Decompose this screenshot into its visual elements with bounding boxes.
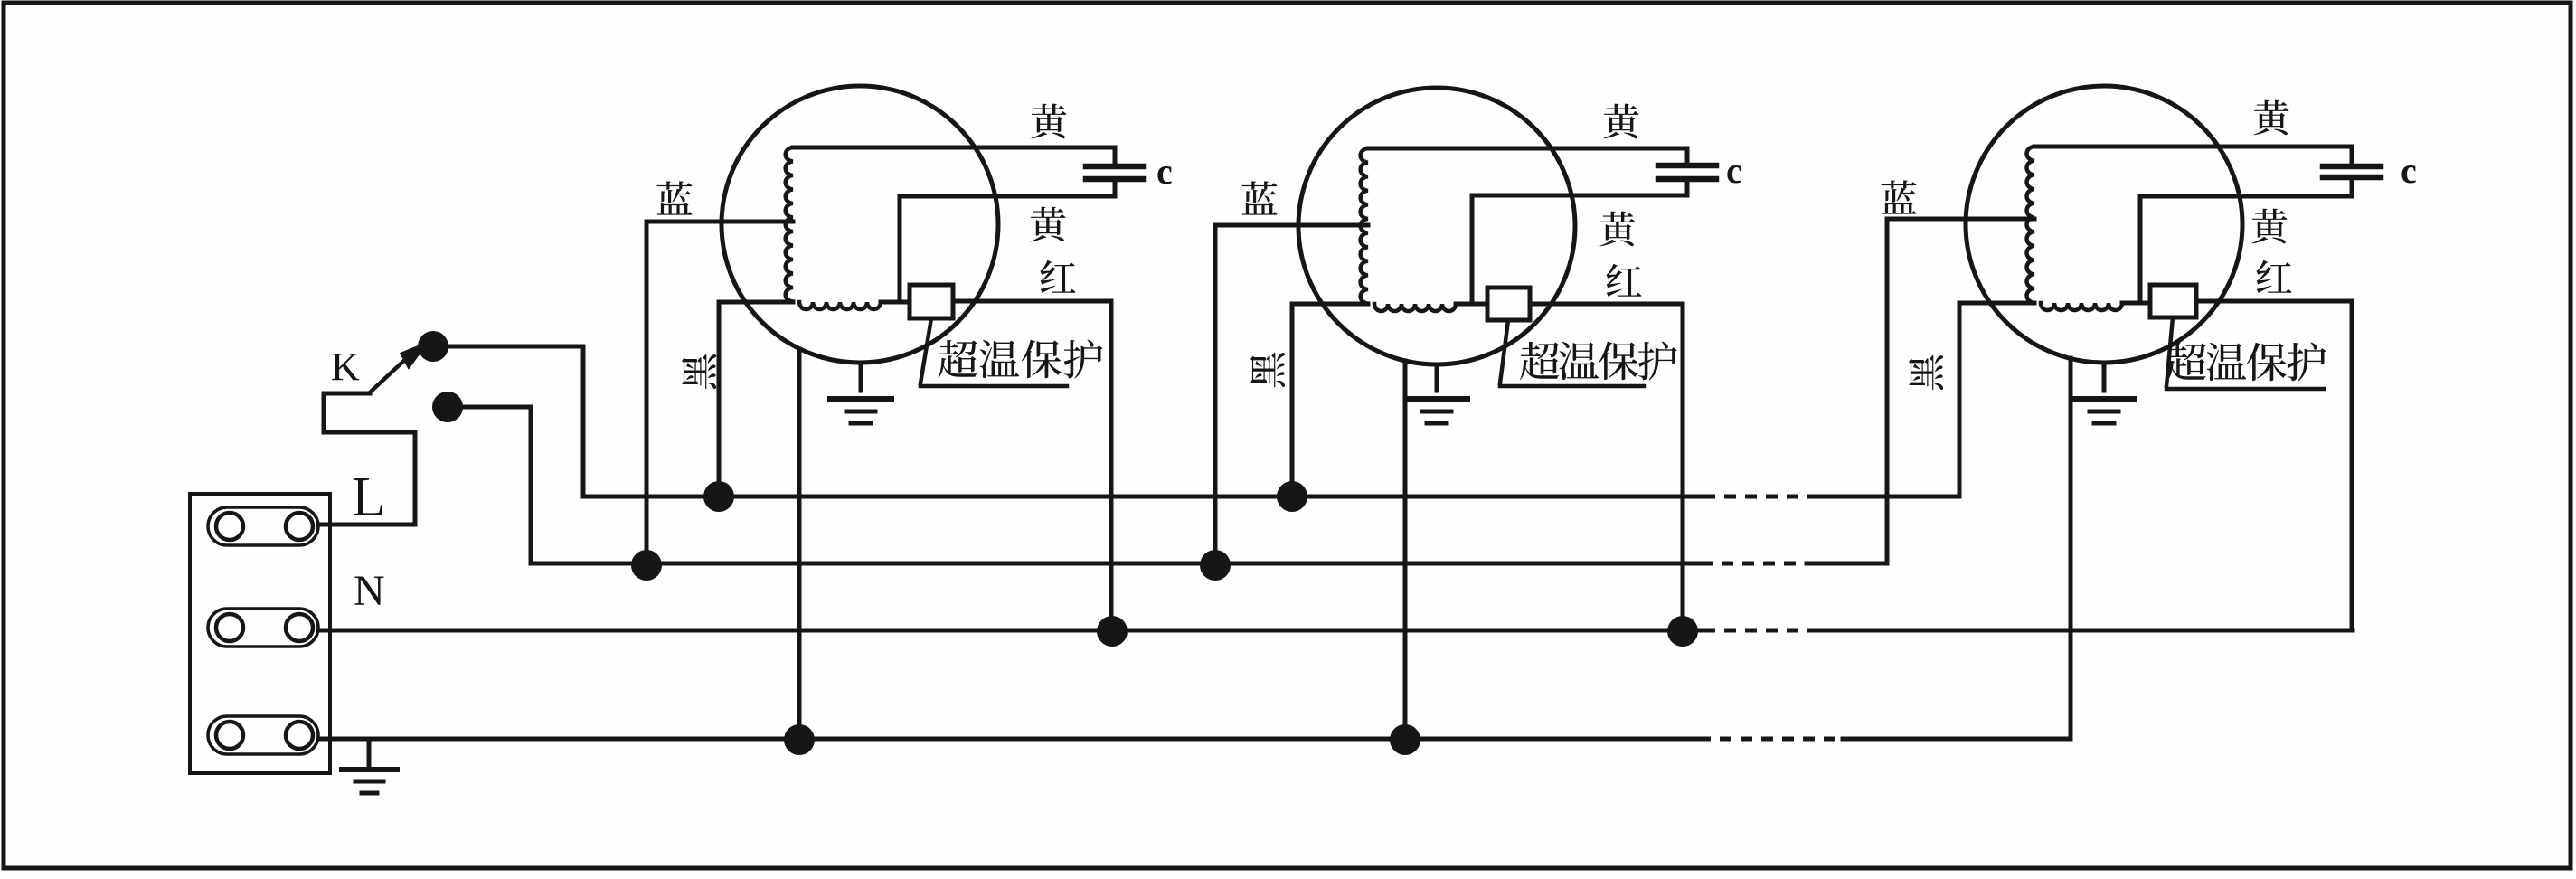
label 蓝 (blue) M1: [656, 181, 692, 214]
bus line 2: [531, 562, 1701, 566]
motor M1 housing: [722, 86, 998, 363]
motor M1 yellow return wire from capacitor: [900, 179, 1115, 302]
motor M1 aux winding (horizontal): [799, 302, 881, 309]
thermal protector TP3: [2150, 285, 2196, 317]
motor M1 yellow wire to capacitor: [793, 147, 1115, 166]
motor M1 black wire: [719, 302, 793, 496]
label 蓝 (blue) M2: [1241, 181, 1277, 214]
motor M2 black wire: [1292, 304, 1368, 496]
label 黄 (yellow) top M2: [1603, 104, 1638, 139]
L bus dashed continuation: [1703, 495, 1814, 499]
switch K lever: [370, 356, 409, 392]
N bus right segment: [1819, 629, 2353, 633]
thermal protector TP2: [1487, 288, 1530, 320]
motor M3 aux winding (horizontal): [2041, 303, 2122, 310]
label 黑 (black) M2 rotated: [1250, 353, 1285, 388]
ground bus right segment: [1843, 737, 2071, 742]
switch contact node (top): [418, 331, 448, 362]
motor M3 case ground wire: [2069, 358, 2073, 739]
label 黄 (yellow) second M3: [2251, 209, 2287, 244]
wire switch top contact to L bus: [433, 346, 583, 496]
thermal protector TP2 leader line: [1500, 320, 1644, 386]
motor M3 black wire: [1959, 303, 2034, 496]
motor M1 case ground wire: [797, 349, 802, 740]
junction L-bus / M2 black: [1277, 481, 1307, 512]
junction N-bus / M2 red: [1667, 616, 1698, 647]
N bus dashed continuation: [1703, 629, 1819, 633]
motor M2 blue wire: [1215, 225, 1368, 565]
switch contact node (bottom): [432, 392, 463, 422]
junction N-bus / M1 red: [1097, 616, 1128, 647]
label 黄 (yellow) top M3: [2253, 100, 2288, 136]
motor M2 case ground wire: [1403, 361, 1408, 740]
svg-text:c: c: [1156, 151, 1173, 192]
motor M1 blue wire: [646, 222, 793, 565]
terminal slot 1: [208, 507, 318, 545]
motor M3 housing: [1966, 86, 2242, 363]
label 黄 (yellow) second M2: [1599, 212, 1635, 247]
thermal protector TP1 leader line: [920, 318, 1067, 386]
bus 2 dashed continuation: [1701, 562, 1807, 566]
thermal protector TP1: [910, 285, 953, 318]
junction bus2 / M2 blue: [1200, 550, 1231, 581]
motor M2 yellow return wire from capacitor: [1472, 179, 1687, 304]
motor M2 wire winding to thermal protector: [1456, 302, 1487, 307]
wire L terminal to switch pivot: [318, 393, 415, 525]
terminal slot 2: [208, 609, 318, 647]
capacitor C3 top plate: [2323, 164, 2381, 170]
ground bus dashed continuation: [1699, 737, 1843, 742]
label 超温保护 (over-temperature protection) M2: [1520, 342, 1677, 381]
motor M3 wire winding to thermal protector: [2122, 301, 2150, 306]
label 超温保护 (over-temperature protection) M3: [2166, 343, 2326, 382]
motor M3 red wire: [2196, 301, 2352, 630]
svg-text:c: c: [1726, 150, 1742, 191]
junction ground bus / M2 case: [1390, 724, 1420, 755]
motor M2 red wire: [1530, 304, 1683, 631]
label 红 (red) M2: [1606, 264, 1641, 297]
label 红 (red) M3: [2256, 260, 2291, 293]
motor M3 yellow return wire from capacitor: [2140, 177, 2352, 303]
motor M1 main winding (vertical): [786, 147, 793, 302]
motor M3 ground symbol: [2073, 363, 2135, 423]
motor M1 red wire: [953, 301, 1111, 631]
switch K arrowhead: [401, 344, 426, 367]
motor M2 ground symbol: [1406, 364, 1467, 423]
motor M3 main winding (vertical): [2027, 146, 2034, 303]
motor M2 yellow wire to capacitor: [1368, 148, 1687, 165]
capacitor C2 top plate: [1658, 163, 1716, 169]
thermal protector TP3 leader line: [2166, 317, 2324, 389]
motor M1 ground symbol: [830, 363, 892, 423]
label 超温保护 (over-temperature protection) M1: [938, 340, 1102, 379]
svg-text:c: c: [2401, 150, 2417, 191]
junction bus2 / M1 blue: [631, 550, 662, 581]
terminal ground symbol: [342, 740, 397, 793]
label 黄 (yellow) second M1: [1030, 207, 1065, 242]
terminal slot 3: [208, 716, 318, 754]
terminal block: [190, 494, 330, 773]
bus 2 right segment: [1807, 562, 1887, 566]
L bus right segment: [1814, 495, 1959, 499]
junction L-bus / M1 black: [703, 481, 734, 512]
motor M3 blue wire: [1887, 219, 2034, 563]
capacitor C3 bottom plate: [2323, 175, 2381, 181]
L bus (line 1): [583, 495, 1703, 499]
svg-text:N: N: [354, 567, 385, 615]
label 黑 (black) M3 rotated: [1909, 355, 1943, 391]
capacitor C1 top plate: [1086, 164, 1144, 170]
svg-text:L: L: [352, 467, 386, 528]
ground bus wire from terminal: [318, 737, 1699, 742]
motor M2 main winding (vertical): [1361, 148, 1368, 304]
capacitor C1 bottom plate: [1086, 176, 1144, 183]
N bus wire from terminal: [318, 629, 1703, 633]
label 黑 (black) M1 rotated: [682, 354, 716, 390]
label 黄 (yellow) top M1: [1031, 104, 1066, 139]
motor M1 wire winding to thermal protector: [881, 300, 910, 305]
wire switch bottom contact to second bus: [448, 407, 531, 563]
capacitor C2 bottom plate: [1658, 176, 1716, 183]
label 红 (red) M1: [1040, 260, 1075, 293]
motor M2 housing: [1298, 88, 1575, 364]
junction ground bus / M1 case: [784, 724, 815, 755]
motor M3 yellow wire to capacitor: [2034, 146, 2352, 166]
svg-text:K: K: [331, 345, 360, 389]
label 蓝 (blue) M3: [1881, 180, 1916, 213]
motor M2 aux winding (horizontal): [1374, 304, 1456, 311]
